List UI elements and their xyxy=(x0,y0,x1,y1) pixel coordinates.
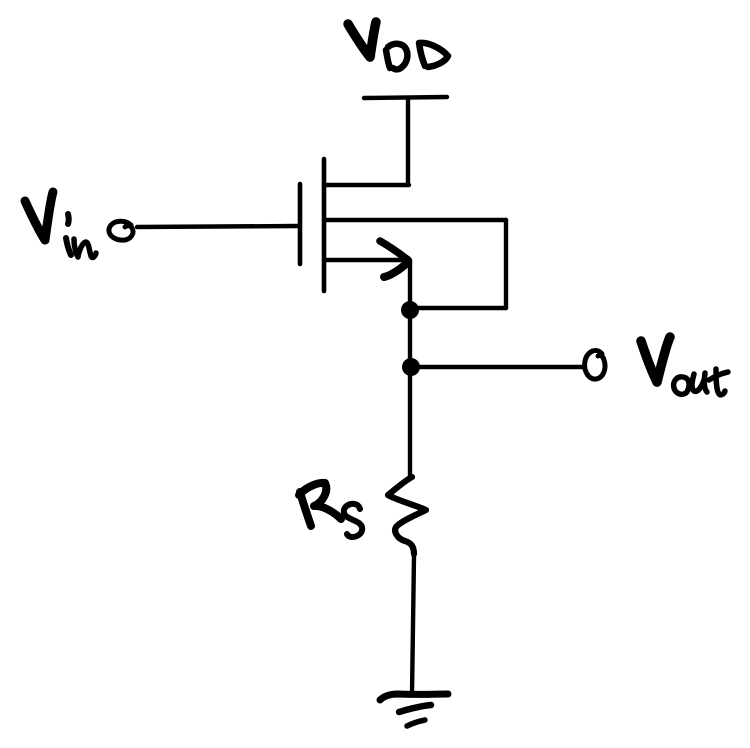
ground bar 2 xyxy=(399,705,431,712)
label Vin xyxy=(25,192,96,257)
wire VDD rail to drain xyxy=(406,98,410,185)
ground bar 1 xyxy=(380,694,448,700)
wire source down through nodes to resistor xyxy=(408,260,412,477)
input terminal circle xyxy=(109,221,133,240)
VDD supply rail xyxy=(364,97,447,98)
wire body loop bottom xyxy=(411,306,506,310)
source arrow upper stroke xyxy=(380,241,408,260)
transistor M1 gate bar xyxy=(298,184,303,264)
label RS xyxy=(299,483,362,537)
wire body loop right side xyxy=(504,220,508,308)
resistor RS squiggle xyxy=(388,477,426,554)
transistor M1 channel bar xyxy=(322,159,327,291)
junction dot body-source node xyxy=(401,301,419,319)
transistor M1 source lead xyxy=(324,258,407,262)
wire output node to terminal xyxy=(420,365,583,369)
transistor M1 body lead xyxy=(324,218,506,222)
wire Vin terminal to gate xyxy=(137,226,297,227)
transistor M1 drain lead xyxy=(326,183,409,187)
output terminal circle xyxy=(585,350,605,379)
label VDD xyxy=(348,22,448,69)
wire resistor to ground xyxy=(412,556,414,694)
label Vout xyxy=(641,337,728,395)
ground bar 3 xyxy=(407,720,425,726)
source arrow lower stroke xyxy=(384,262,408,277)
junction dot output node xyxy=(402,358,420,376)
